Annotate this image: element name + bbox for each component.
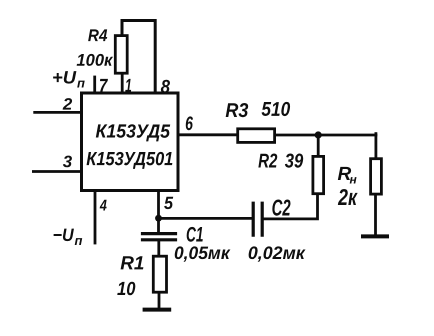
svg-text:R2: R2 [258,151,277,173]
wire pin 6 to R3 [178,133,236,136]
wire node B to C2 [159,217,253,220]
svg-text:С2: С2 [272,195,291,221]
wire R2 bottom to C2 [263,195,318,219]
svg-text:п: п [74,233,82,248]
wire pin 2 input [35,111,82,114]
node A junction dot [315,131,322,138]
svg-text:6: 6 [185,113,193,135]
wire pin 7 stub [93,77,96,93]
svg-text:+U: +U [52,67,77,87]
resistor R4 [115,36,127,74]
svg-text:10: 10 [117,279,136,300]
wire R1 to ground [158,294,161,309]
wire pin 4 lead [94,191,97,244]
svg-text:−U: −U [53,225,75,245]
svg-text:2: 2 [62,96,72,114]
wire node B down to C1 [157,218,160,232]
svg-text:0,05мк: 0,05мк [174,243,231,263]
svg-text:7: 7 [99,76,109,97]
node B junction dot [155,215,162,222]
svg-text:100к: 100к [76,51,113,70]
op-amp U1 К153УД5 [82,93,179,191]
resistor R2 [313,156,324,193]
svg-text:2к: 2к [337,184,358,210]
capacitor C2 [253,203,262,235]
svg-text:1: 1 [125,76,132,97]
wire Rn to ground [374,196,377,235]
wire C1 to R1 [157,241,160,255]
svg-text:510: 510 [261,99,290,121]
svg-text:5: 5 [164,193,174,213]
resistor R1 [153,256,166,292]
svg-text:R3: R3 [225,100,248,122]
resistor Rn [371,159,382,194]
capacitor C1 [143,234,176,240]
wire pin 1 lead [121,74,124,93]
svg-text:8: 8 [161,77,171,98]
svg-text:К153УД501: К153УД501 [86,149,173,170]
svg-text:4: 4 [99,197,107,214]
svg-text:39: 39 [285,151,304,173]
wire top loop pin1 to pin8 [122,21,155,94]
svg-text:R4: R4 [88,26,108,45]
wire node A down to R2 [317,135,320,155]
wire R3 to node A and corner [276,134,376,137]
wire pin 3 input [33,170,81,173]
wire pin 5 lead [157,191,160,219]
resistor R3 [238,129,275,143]
wire corner down to Rn [374,134,377,158]
svg-text:R1: R1 [120,253,144,274]
svg-text:0,02мк: 0,02мк [248,243,306,263]
ground below R1 [143,308,172,312]
svg-text:3: 3 [63,153,72,171]
svg-text:К153УД5: К153УД5 [96,122,171,143]
svg-text:п: п [77,75,85,90]
ground below Rn [361,234,389,238]
